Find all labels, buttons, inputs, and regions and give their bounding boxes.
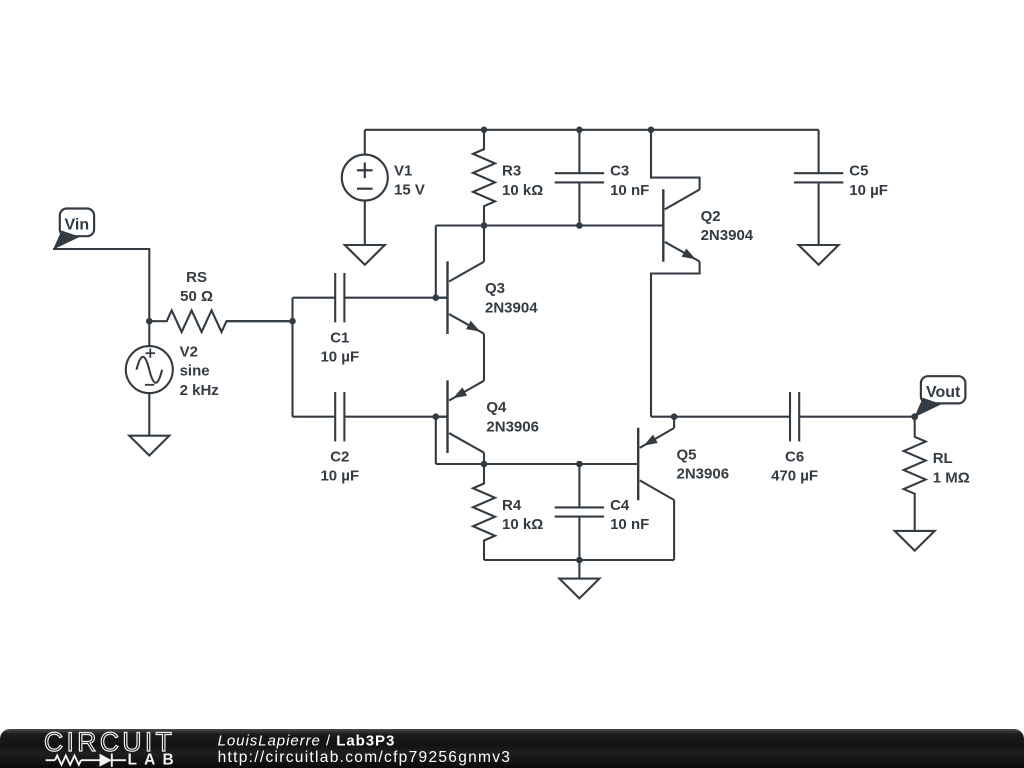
capacitor C2 10uF <box>293 416 336 418</box>
node flag Vout <box>921 376 966 403</box>
node C4 bottom junction <box>576 557 583 564</box>
node Q5 emitter junction <box>671 413 678 420</box>
transistor Q4 2N3906 PNP <box>446 380 448 453</box>
svg-text:10 µF: 10 µF <box>320 468 359 485</box>
capacitor C3 10nF <box>578 130 580 173</box>
wire top rail <box>365 129 819 131</box>
svg-text:Q5: Q5 <box>677 447 697 464</box>
capacitor C6 470uF <box>789 392 791 441</box>
wire C1C2 vertical <box>291 298 293 417</box>
transistor Q3 2N3904 NPN <box>446 261 448 334</box>
wire Q3 base wire <box>436 297 448 299</box>
voltage source V2 sine 2kHz <box>126 346 173 393</box>
svg-text:C5: C5 <box>849 163 868 180</box>
wire Q2 emitter route <box>651 262 700 417</box>
node C3 top junction <box>576 127 583 134</box>
capacitor C5 10uF <box>818 130 820 173</box>
svg-text:10 nF: 10 nF <box>610 516 649 533</box>
svg-text:R4: R4 <box>502 497 522 514</box>
node C4 top junction <box>576 461 583 468</box>
svg-text:1 MΩ: 1 MΩ <box>933 469 970 486</box>
ground below RL <box>895 531 935 551</box>
wire output row right <box>799 416 915 418</box>
svg-text:RL: RL <box>933 450 953 467</box>
footer bar background <box>0 729 1024 768</box>
resistor RL 1Mohm <box>904 417 926 531</box>
svg-text:http://circuitlab.com/cfp79256: http://circuitlab.com/cfp79256gnmv3 <box>218 749 512 766</box>
node flag Vin <box>60 209 94 237</box>
node Q4 base junction <box>433 413 440 420</box>
node Vin/RS/V2 junction <box>146 318 153 325</box>
node Vout junction <box>911 413 918 420</box>
wire Q3 collector-base tie <box>435 226 437 298</box>
svg-text:Q4: Q4 <box>486 399 507 416</box>
svg-text:10 nF: 10 nF <box>610 182 649 199</box>
svg-text:10 kΩ: 10 kΩ <box>502 516 543 533</box>
ground below V2 <box>148 393 150 436</box>
svg-text:Vin: Vin <box>64 217 89 234</box>
svg-text:2N3906: 2N3906 <box>486 418 539 435</box>
svg-text:10 kΩ: 10 kΩ <box>502 182 543 199</box>
wire Q5 emitter stub <box>673 417 675 428</box>
svg-text:2 kHz: 2 kHz <box>180 382 219 399</box>
svg-text:C4: C4 <box>610 497 630 514</box>
voltage source V1 15V <box>342 155 388 201</box>
wire Q2 collector route <box>651 130 700 190</box>
svg-text:C2: C2 <box>330 449 349 466</box>
wire Q5 collector route <box>673 500 675 560</box>
node R4 top junction <box>481 461 488 468</box>
transistor Q2 2N3904 NPN <box>662 189 664 262</box>
svg-text:V2: V2 <box>180 344 198 361</box>
wire Q3-Q4 emitter link <box>483 334 485 381</box>
node Q3 base junction <box>433 294 440 301</box>
resistor R4 10k <box>473 464 495 560</box>
wire Vin to RS/V2 node <box>53 249 149 321</box>
wire lower base rail <box>436 463 638 465</box>
svg-text:10 µF: 10 µF <box>849 182 888 199</box>
wire Q4 collector stub <box>483 453 485 464</box>
wire mid rail <box>436 224 664 226</box>
svg-text:15 V: 15 V <box>394 182 425 199</box>
capacitor C1 10uF <box>293 297 336 299</box>
svg-text:470 µF: 470 µF <box>771 468 818 485</box>
node Q2 collector junction <box>648 127 655 134</box>
svg-text:C1: C1 <box>330 330 349 347</box>
svg-text:50 Ω: 50 Ω <box>180 288 213 305</box>
transistor Q5 2N3906 PNP <box>637 428 639 501</box>
svg-text:Q3: Q3 <box>485 280 505 297</box>
node C3 bottom junction <box>576 222 583 229</box>
wire Q3 collector stub <box>483 226 485 262</box>
wire bottom rail <box>484 559 674 561</box>
node R3 top junction <box>481 127 488 134</box>
svg-text:RS: RS <box>186 269 207 286</box>
node R3 bottom junction <box>481 222 488 229</box>
svg-text:LAB: LAB <box>128 752 181 768</box>
svg-text:sine: sine <box>180 363 210 380</box>
resistor RS 50 ohm <box>149 310 292 332</box>
wire Q4 base wire <box>436 416 448 418</box>
wire RS right to C1/C2 column <box>227 320 293 322</box>
svg-text:LouisLapierre / Lab3P3: LouisLapierre / Lab3P3 <box>218 733 396 750</box>
ground below C4 <box>578 560 580 579</box>
ground below V1 <box>345 245 385 265</box>
node RS/C1C2 junction <box>289 318 296 325</box>
svg-text:2N3904: 2N3904 <box>701 227 754 244</box>
svg-text:Vout: Vout <box>926 384 961 401</box>
capacitor C4 10nF <box>578 464 580 507</box>
ground below C5 <box>799 245 839 265</box>
svg-text:Q2: Q2 <box>701 208 721 225</box>
svg-text:C3: C3 <box>610 163 629 180</box>
svg-text:R3: R3 <box>502 163 521 180</box>
resistor R3 10k <box>473 130 495 226</box>
svg-text:2N3904: 2N3904 <box>485 299 538 316</box>
wire output row left <box>651 416 790 418</box>
svg-text:10 µF: 10 µF <box>320 349 359 366</box>
svg-text:V1: V1 <box>394 163 412 180</box>
svg-text:2N3906: 2N3906 <box>677 466 730 483</box>
logo resistor-diode glyph <box>46 759 55 761</box>
svg-text:C6: C6 <box>785 449 804 466</box>
wire Q4 base-collector tie <box>435 417 437 464</box>
